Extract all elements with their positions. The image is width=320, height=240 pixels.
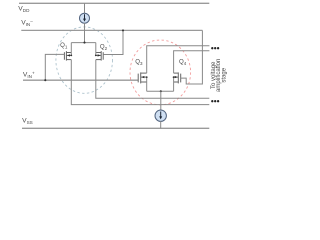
wire down to current source I2 (crosses outputs A,B) [160, 91, 162, 110]
Q1 body arrow [67, 54, 70, 56]
junction: tail node 2 [160, 90, 162, 92]
svg-text:stage: stage [222, 67, 228, 82]
VDD rail [19, 2, 209, 4]
Q2 drain wire down then right (output B) [96, 60, 210, 99]
junction on VIN+ [44, 79, 46, 81]
transistor Q4 (mirrored, gate right) [174, 72, 181, 83]
Q4 gate wire to VIN- (right, down, right, up) [181, 30, 203, 84]
junction: Q4 body tie [173, 76, 175, 78]
transistor Q2 (mirrored, gate right) [96, 51, 103, 61]
Q1 drain wire down then right (output A) [71, 60, 209, 105]
Q4 source/body bus [173, 77, 175, 91]
Q1 source/body bus [70, 43, 72, 56]
VIN+ rail (also gate lead of Q3) [23, 79, 138, 81]
Q2 body arrow [98, 54, 101, 56]
wire VDD to current source I1 [84, 3, 86, 13]
transistor Q3 (gate left) [138, 72, 147, 83]
Q2 gate wire to VIN- (right then up) [103, 30, 123, 54]
Q1 gate wire to VIN+ (left then down) [45, 54, 64, 80]
transistor Q1 (gate left) [64, 51, 71, 61]
Q3 body arrow [142, 76, 145, 78]
Q4 drain wire up then right (output D) [174, 51, 210, 73]
current source I2 (tail of Q3/Q4) [155, 110, 166, 121]
common source wire of Q1/Q2 [71, 42, 96, 44]
VIN- rail [21, 29, 202, 31]
Q4 body arrow [175, 76, 178, 78]
junction: tail node [83, 42, 85, 44]
wire I1 down to common-source node (crosses VIN- rail) [84, 23, 86, 42]
common source wire of Q3/Q4 [147, 90, 174, 92]
continuation dots (lower pair, outputs A/B) [211, 100, 213, 102]
current source I1 (tail of Q1/Q2) [80, 13, 90, 23]
Q2 source/body bus [95, 43, 97, 56]
junction: Q2 body tie [95, 55, 97, 57]
wire I2 to VSS [160, 121, 162, 128]
continuation dots (upper pair, outputs C/D) [211, 47, 213, 49]
junction: Q3 body tie [146, 76, 148, 78]
VSS rail [22, 127, 209, 129]
Q3 source/body bus [146, 77, 148, 91]
junction on VIN- [122, 29, 124, 31]
Q3 drain wire up then right (output C) [147, 46, 210, 73]
dashed highlight circle around Q3/Q4 (red) [130, 40, 191, 105]
note: To voltage amplification stage (rotated) [211, 59, 228, 92]
dashed highlight ellipse around Q1/Q2 (blue-gray) [56, 27, 113, 93]
junction: Q1 body tie [70, 55, 72, 57]
